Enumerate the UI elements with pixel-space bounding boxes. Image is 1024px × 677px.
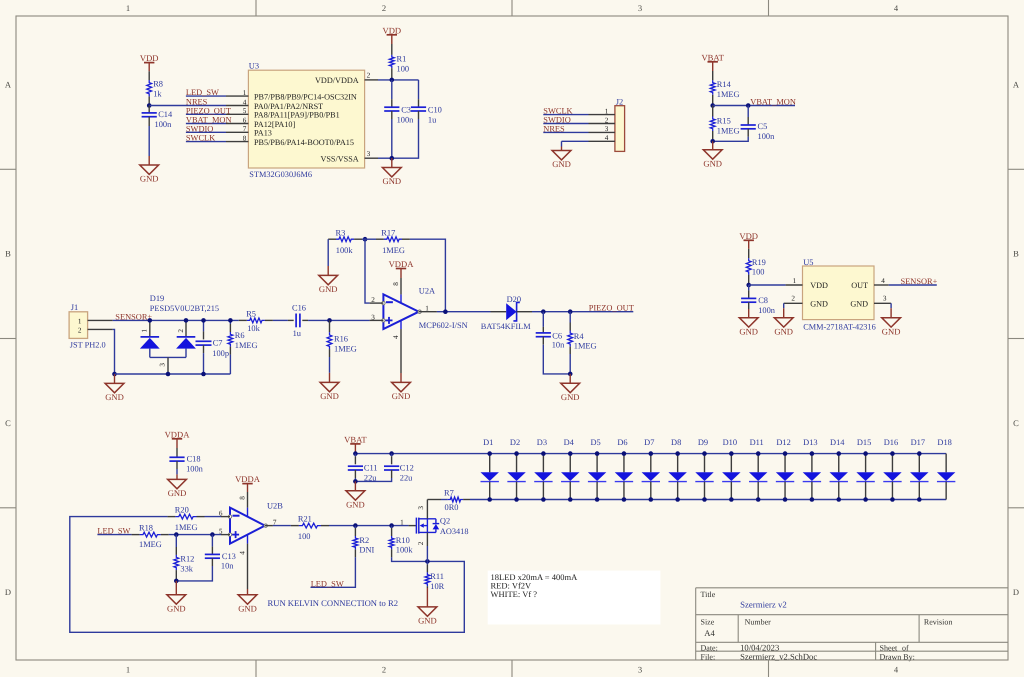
svg-text:2: 2 xyxy=(367,72,371,80)
node D17 cathode xyxy=(917,497,922,502)
svg-text:2: 2 xyxy=(417,541,425,545)
svg-text:1: 1 xyxy=(126,665,130,675)
node NRES junction xyxy=(147,103,152,108)
svg-text:SENSOR+: SENSOR+ xyxy=(901,277,938,286)
node C7 top xyxy=(201,318,206,323)
title block text xyxy=(701,590,953,661)
pin 1 VDD of U5 xyxy=(786,277,828,290)
svg-text:100n: 100n xyxy=(186,464,204,473)
pin 8 SWCLK of U3 xyxy=(186,134,354,147)
node D19 pin3 rail xyxy=(166,372,171,377)
wire SENSOR+ main xyxy=(113,319,239,321)
led D1 xyxy=(481,438,499,499)
svg-text:R3: R3 xyxy=(336,228,346,237)
node D5 anode xyxy=(595,451,600,456)
node D9 cathode xyxy=(702,497,707,502)
svg-text:100k: 100k xyxy=(336,246,354,255)
svg-text:R20: R20 xyxy=(175,506,189,515)
svg-text:VBAT_MON: VBAT_MON xyxy=(186,116,232,125)
net label SWDIO (J2) xyxy=(543,116,570,125)
ground GND (piezo filter) xyxy=(561,374,580,402)
svg-text:2: 2 xyxy=(382,3,386,13)
svg-text:8: 8 xyxy=(392,282,400,286)
led D12 xyxy=(776,438,794,499)
led D2 xyxy=(507,438,525,499)
node R6 top xyxy=(228,318,233,323)
node D8 cathode xyxy=(675,497,680,502)
svg-text:BAT54KFILM: BAT54KFILM xyxy=(481,322,531,331)
wire VSS rail xyxy=(378,157,392,159)
net label LED_SW (R2) xyxy=(311,579,344,588)
svg-text:D: D xyxy=(1013,587,1019,597)
wire R5 to C16 xyxy=(273,319,288,321)
svg-text:SENSOR+: SENSOR+ xyxy=(115,312,152,321)
node D13 anode xyxy=(810,451,815,456)
node D15 anode xyxy=(863,451,868,456)
ground GND (R12 C13) xyxy=(167,581,186,614)
pin 3 of U2A xyxy=(370,313,384,321)
ground GND (R11) xyxy=(418,588,437,626)
svg-text:4: 4 xyxy=(392,335,400,339)
wire VBAT LED top rail xyxy=(355,453,946,455)
svg-text:4: 4 xyxy=(243,98,247,106)
svg-text:VDDA: VDDA xyxy=(165,429,191,439)
resistor R8 xyxy=(147,71,163,105)
resistor R6 xyxy=(228,320,258,374)
svg-text:LED_SW: LED_SW xyxy=(311,579,344,588)
net label VBAT_MON xyxy=(750,98,796,107)
node D11 cathode xyxy=(756,497,761,502)
svg-text:3: 3 xyxy=(417,506,425,510)
node R12 bottom xyxy=(174,579,179,584)
svg-text:PA12[PA10]: PA12[PA10] xyxy=(254,120,296,129)
svg-text:1MEG: 1MEG xyxy=(334,345,357,354)
resistor R1 xyxy=(389,44,409,80)
svg-text:Q2: Q2 xyxy=(440,517,450,526)
net label NRES (J2) xyxy=(543,124,565,133)
resistor R21 xyxy=(291,515,329,541)
svg-text:0R0: 0R0 xyxy=(445,503,459,512)
resistor R12 xyxy=(174,535,194,581)
net label SWCLK (J2) xyxy=(543,107,572,116)
pin 5 PIEZO_OUT of U3 xyxy=(186,107,340,120)
ground GND (U2A) xyxy=(392,373,411,401)
svg-text:R18: R18 xyxy=(139,524,153,533)
net label LED_SW (input) xyxy=(97,527,130,536)
node D14 anode xyxy=(836,451,841,456)
svg-text:1MEG: 1MEG xyxy=(175,523,198,532)
svg-text:3: 3 xyxy=(371,313,375,321)
svg-text:C11: C11 xyxy=(364,464,378,473)
svg-text:GND: GND xyxy=(552,159,571,169)
svg-text:100: 100 xyxy=(298,532,311,541)
resistor R18 xyxy=(132,524,169,549)
svg-text:VBAT: VBAT xyxy=(344,435,367,445)
power port VDD (U5 branch) xyxy=(739,231,758,249)
wire ground rail xyxy=(115,373,231,375)
svg-text:GND: GND xyxy=(882,326,901,336)
svg-text:D2: D2 xyxy=(510,438,520,447)
svg-text:10n: 10n xyxy=(552,341,565,350)
pin 2 of U2A xyxy=(370,296,384,304)
led D17 xyxy=(910,438,928,499)
svg-text:1MEG: 1MEG xyxy=(235,341,258,350)
node D4 anode xyxy=(568,451,573,456)
svg-text:JST PH2.0: JST PH2.0 xyxy=(70,341,106,350)
svg-text:D20: D20 xyxy=(507,295,521,304)
svg-text:PB7/PB8/PB9/PC14-OSC32IN: PB7/PB8/PB9/PC14-OSC32IN xyxy=(254,93,357,102)
svg-text:100n: 100n xyxy=(758,306,776,315)
svg-text:Size: Size xyxy=(701,618,715,627)
ground GND (J1) xyxy=(105,374,124,402)
node ground rail left xyxy=(112,372,117,377)
svg-text:GND: GND xyxy=(140,174,159,184)
svg-text:R12: R12 xyxy=(180,555,194,564)
wire VDD rail to U3 pin2 xyxy=(378,79,419,81)
capacitor C3 xyxy=(384,80,414,158)
svg-text:8: 8 xyxy=(243,134,247,142)
node VSS rail junction xyxy=(390,156,395,161)
pin 8 of U2B xyxy=(238,492,247,508)
node C5 top junction xyxy=(746,103,751,108)
svg-text:7: 7 xyxy=(243,125,247,133)
svg-text:Title: Title xyxy=(701,590,716,599)
capacitor C8 xyxy=(741,285,776,315)
svg-text:2: 2 xyxy=(382,665,386,675)
resistor R17 xyxy=(365,228,410,255)
wire C16 to op-amp pin3 xyxy=(308,319,370,321)
pin 3 VSS/VSSA of U3 xyxy=(320,150,378,164)
transistor Q2 AO3418 xyxy=(400,517,468,537)
svg-text:VDDA: VDDA xyxy=(235,474,261,484)
resistor R5 xyxy=(239,310,273,333)
node VBAT_MON junction xyxy=(710,103,715,108)
svg-text:R16: R16 xyxy=(334,335,348,344)
led D15 xyxy=(856,438,874,499)
net label PIEZO_OUT xyxy=(589,304,634,313)
node D1 cathode xyxy=(487,497,492,502)
svg-text:OUT: OUT xyxy=(851,281,868,290)
diode D20 BAT54KFILM xyxy=(481,295,532,331)
svg-text:2: 2 xyxy=(605,116,609,124)
capacitor C11 xyxy=(348,454,378,483)
node VBAT C11 xyxy=(353,451,358,456)
svg-text:10R: 10R xyxy=(430,582,444,591)
capacitor C14 xyxy=(142,106,173,157)
wire U2A output xyxy=(437,311,491,313)
wire D20 to PIEZO_OUT xyxy=(532,311,633,313)
note box LED current xyxy=(488,571,661,625)
svg-text:4: 4 xyxy=(881,277,885,285)
led D14 xyxy=(830,438,848,499)
svg-text:1: 1 xyxy=(141,329,149,333)
pin 7 SWDIO of U3 xyxy=(186,125,272,138)
node D14 cathode xyxy=(836,497,841,502)
led D8 xyxy=(668,438,686,499)
svg-text:D13: D13 xyxy=(803,438,817,447)
net label PIEZO_OUT xyxy=(186,106,231,115)
svg-text:100n: 100n xyxy=(155,120,173,129)
node D1 anode xyxy=(487,451,492,456)
resistor R19 xyxy=(746,249,766,285)
svg-text:D18: D18 xyxy=(937,438,951,447)
svg-text:J1: J1 xyxy=(71,303,78,312)
svg-text:3: 3 xyxy=(883,295,887,303)
node R16 top junction xyxy=(327,318,332,323)
svg-text:100n: 100n xyxy=(758,132,776,141)
svg-text:1: 1 xyxy=(400,519,404,527)
svg-text:C: C xyxy=(5,418,11,428)
svg-text:2: 2 xyxy=(177,329,185,333)
pin 5 of U2B xyxy=(169,528,230,536)
node feedback junction xyxy=(363,237,368,242)
svg-text:A: A xyxy=(1013,79,1020,89)
node D15 cathode xyxy=(863,497,868,502)
node D3 cathode xyxy=(541,497,546,502)
svg-text:File:: File: xyxy=(701,652,716,661)
svg-text:GND: GND xyxy=(320,391,339,401)
wire feedback to output xyxy=(410,239,446,312)
led D10 xyxy=(722,438,740,499)
node D8 anode xyxy=(675,451,680,456)
node R12 top xyxy=(174,532,179,537)
svg-text:PIEZO_OUT: PIEZO_OUT xyxy=(589,304,634,313)
svg-text:1: 1 xyxy=(243,89,247,97)
ground GND (U5 pin2) xyxy=(774,308,793,336)
wire R3 junction to op-amp pin2 xyxy=(362,239,370,303)
svg-text:VDD: VDD xyxy=(140,53,159,63)
led D7 xyxy=(642,438,660,499)
svg-text:1MEG: 1MEG xyxy=(382,246,405,255)
svg-text:GND: GND xyxy=(418,616,437,626)
power port VDD (R8 branch) xyxy=(140,53,159,71)
led D11 xyxy=(749,438,767,499)
led D4 xyxy=(561,438,579,499)
svg-text:VDD: VDD xyxy=(382,25,401,35)
svg-text:1MEG: 1MEG xyxy=(717,90,740,99)
node output junction xyxy=(443,309,448,314)
pin 1 of J1 xyxy=(78,317,113,325)
svg-text:1MEG: 1MEG xyxy=(574,342,597,351)
svg-text:A: A xyxy=(5,79,12,89)
svg-text:NRES: NRES xyxy=(186,98,208,107)
svg-text:6: 6 xyxy=(243,116,247,124)
svg-text:STM32G030J6M6: STM32G030J6M6 xyxy=(249,170,312,179)
svg-text:1u: 1u xyxy=(428,115,437,124)
svg-text:GND: GND xyxy=(774,326,793,336)
node D17 anode xyxy=(917,451,922,456)
svg-text:VDDA: VDDA xyxy=(389,259,415,269)
svg-text:5: 5 xyxy=(219,528,223,536)
node U5 VDD junction xyxy=(746,283,751,288)
power port VDDA (U2B) xyxy=(235,474,261,492)
svg-text:1MEG: 1MEG xyxy=(139,540,162,549)
svg-text:B: B xyxy=(1013,249,1019,259)
node D6 cathode xyxy=(622,497,627,502)
svg-text:100k: 100k xyxy=(396,545,414,554)
led D6 xyxy=(615,438,633,499)
ground GND (U2B) xyxy=(238,589,257,613)
capacitor C5 xyxy=(713,106,775,142)
svg-text:CMM-2718AT-42316: CMM-2718AT-42316 xyxy=(803,322,876,331)
svg-text:GND: GND xyxy=(850,299,868,308)
svg-text:100: 100 xyxy=(752,268,765,277)
svg-text:D12: D12 xyxy=(776,438,790,447)
svg-text:PA8/PA11[PA9]/PB0/PB1: PA8/PA11[PA9]/PB0/PB1 xyxy=(254,111,340,120)
node D7 cathode xyxy=(649,497,654,502)
svg-text:R19: R19 xyxy=(752,258,766,267)
power port VDDA (U2A) xyxy=(389,259,415,278)
node D9 anode xyxy=(702,451,707,456)
wire R19 to U5 pin1 xyxy=(749,284,786,286)
connector J2 body xyxy=(615,97,625,151)
pin 8 of U2A xyxy=(392,278,401,294)
svg-text:22u: 22u xyxy=(400,473,413,482)
svg-text:R15: R15 xyxy=(717,116,731,125)
svg-text:PA0/PA1/PA2/NRST: PA0/PA1/PA2/NRST xyxy=(254,102,323,111)
text RUN KELVIN CONNECTION to R2 xyxy=(268,598,399,608)
svg-text:Sheet: Sheet xyxy=(880,644,899,653)
svg-text:1k: 1k xyxy=(153,90,162,99)
svg-text:2: 2 xyxy=(791,295,795,303)
svg-text:100p: 100p xyxy=(212,349,229,358)
pin 6 VBAT_MON of U3 xyxy=(186,116,296,129)
op-amp U2A xyxy=(382,287,468,330)
led D18 xyxy=(937,438,955,499)
svg-text:D9: D9 xyxy=(698,438,708,447)
title block xyxy=(696,588,1008,660)
capacitor C10 xyxy=(392,80,442,158)
svg-text:D8: D8 xyxy=(671,438,681,447)
svg-text:Szermierz_v2.SchDoc: Szermierz_v2.SchDoc xyxy=(740,651,817,661)
power port VBAT (LED rail) xyxy=(344,435,367,454)
resistor R14 xyxy=(710,71,739,106)
net label LED_SW xyxy=(186,88,219,97)
node C6 top xyxy=(541,309,546,314)
svg-text:GND: GND xyxy=(392,391,411,401)
svg-text:GND: GND xyxy=(382,176,401,186)
svg-text:2: 2 xyxy=(78,326,82,334)
node R2 top xyxy=(353,523,358,528)
svg-text:2: 2 xyxy=(371,296,375,304)
resistor R7 xyxy=(427,488,470,512)
node D5 cathode xyxy=(595,497,600,502)
svg-text:A4: A4 xyxy=(704,628,715,638)
svg-text:D1: D1 xyxy=(483,438,493,447)
led D16 xyxy=(883,438,901,499)
pin 2 source of Q2 xyxy=(417,532,427,561)
svg-text:C: C xyxy=(1013,418,1019,428)
pin 3 of J2 xyxy=(543,125,615,133)
svg-text:3: 3 xyxy=(367,150,371,158)
svg-text:MCP602-I/SN: MCP602-I/SN xyxy=(419,321,468,330)
wire VBAT_MON xyxy=(713,105,795,107)
pin 4 OUT of U5 xyxy=(851,277,888,290)
svg-text:Drawn By:: Drawn By: xyxy=(880,652,915,661)
capacitor C18 xyxy=(169,448,203,474)
node D4 cathode xyxy=(568,497,573,502)
wire R7 to LED rail xyxy=(470,499,490,501)
node D7 anode xyxy=(649,451,654,456)
svg-text:1u: 1u xyxy=(293,329,302,338)
svg-text:C6: C6 xyxy=(552,331,562,340)
svg-text:C5: C5 xyxy=(758,122,768,131)
svg-text:4: 4 xyxy=(238,551,246,555)
ground GND (U5 pin3) xyxy=(882,308,901,336)
connector J1 body xyxy=(69,303,106,350)
svg-text:PA13: PA13 xyxy=(254,129,272,138)
pin 6 of U2B xyxy=(205,510,231,518)
wire R3 to GND corner xyxy=(327,239,329,266)
node D12 cathode xyxy=(783,497,788,502)
svg-text:D7: D7 xyxy=(644,438,654,447)
ground GND (C11 C12) xyxy=(346,481,365,509)
svg-text:C7: C7 xyxy=(213,339,223,348)
node D3 anode xyxy=(541,451,546,456)
resistor R10 xyxy=(389,526,427,562)
svg-text:10k: 10k xyxy=(247,324,260,333)
node D2 cathode xyxy=(514,497,519,502)
svg-text:100n: 100n xyxy=(397,115,415,124)
power port VBAT (divider) xyxy=(701,52,724,71)
svg-text:WHITE: Vf ?: WHITE: Vf ? xyxy=(491,589,538,599)
svg-text:C10: C10 xyxy=(428,106,442,115)
svg-text:Szermierz v2: Szermierz v2 xyxy=(740,599,787,609)
ground GND (R16) xyxy=(320,373,339,401)
svg-text:33k: 33k xyxy=(180,565,193,574)
node VBAT C12 xyxy=(389,451,394,456)
svg-text:R4: R4 xyxy=(574,332,585,341)
net label SWDIO xyxy=(186,124,213,133)
net label NRES xyxy=(186,98,208,107)
svg-text:VDD: VDD xyxy=(810,281,828,290)
svg-text:VDD: VDD xyxy=(739,231,758,241)
pin 1 of J2 xyxy=(543,107,615,115)
ground GND (C18) xyxy=(168,474,187,498)
node D16 anode xyxy=(890,451,895,456)
node D12 anode xyxy=(783,451,788,456)
svg-text:VSS/VSSA: VSS/VSSA xyxy=(320,155,358,164)
power port VDD (R1 branch) xyxy=(382,25,401,44)
pin 2 of J2 xyxy=(543,116,615,124)
svg-text:SWCLK: SWCLK xyxy=(543,107,572,116)
led D9 xyxy=(695,438,713,499)
pin 1 LED_SW of U3 xyxy=(186,89,357,102)
node C11 bottom xyxy=(353,479,358,484)
node D19 cathode 2 xyxy=(184,318,189,323)
svg-text:1: 1 xyxy=(126,3,130,13)
ground GND (VBAT divider) xyxy=(703,141,722,168)
led D3 xyxy=(534,438,552,499)
svg-text:R21: R21 xyxy=(298,515,312,524)
net label SWCLK xyxy=(186,134,215,143)
node D11 anode xyxy=(756,451,761,456)
svg-text:R11: R11 xyxy=(430,572,444,581)
svg-text:U3: U3 xyxy=(249,62,259,71)
svg-text:GND: GND xyxy=(167,603,186,613)
svg-text:J2: J2 xyxy=(616,97,623,106)
svg-text:D6: D6 xyxy=(617,438,627,447)
pin 4 of J2 xyxy=(562,134,615,146)
wire D19 anode join xyxy=(150,356,186,358)
svg-text:3: 3 xyxy=(638,665,642,675)
kelvin sense wire loop xyxy=(70,517,465,633)
pin 7 of U2B output xyxy=(265,519,277,527)
svg-text:D10: D10 xyxy=(723,438,737,447)
svg-text:of: of xyxy=(902,644,909,653)
wire LED bottom rail xyxy=(490,499,947,501)
wire J1 pin2 to ground rail xyxy=(113,329,115,374)
